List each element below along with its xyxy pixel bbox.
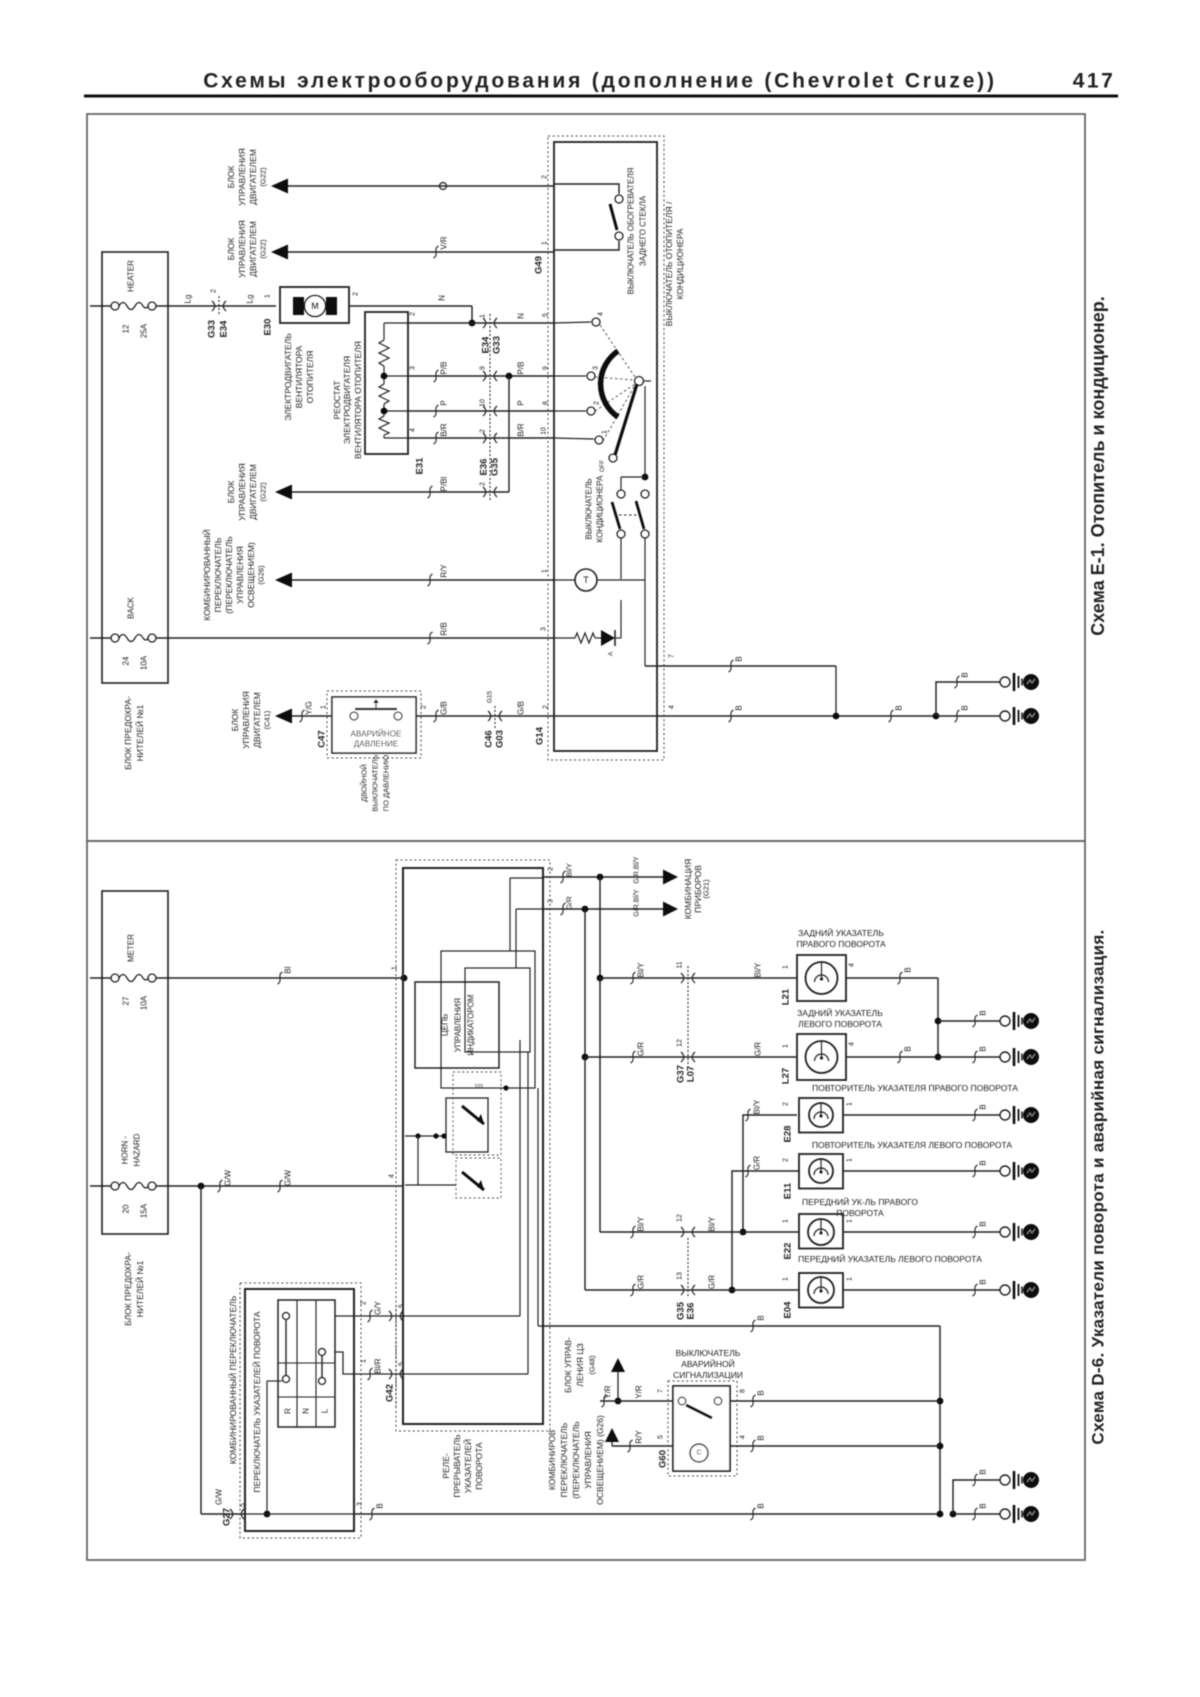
lamp L27 <box>797 1034 846 1080</box>
svg-text:10: 10 <box>480 399 487 407</box>
row4 right wire to ground <box>843 1170 1000 1172</box>
row3 right wire to ground <box>843 1114 1000 1116</box>
svg-text:ДВИГАТЕЛЕМ: ДВИГАТЕЛЕМ <box>248 149 258 205</box>
svg-text:L07: L07 <box>686 1066 697 1082</box>
svg-text:25A: 25A <box>140 323 149 338</box>
relay internal junction row <box>405 1135 446 1137</box>
wire combo switch pin2 to relay G/Y <box>335 1315 354 1317</box>
lamp E04 front left <box>799 1273 843 1308</box>
svg-text:15A: 15A <box>140 1203 149 1218</box>
combination turn switch dashed outline <box>240 1283 361 1538</box>
svg-text:Y/G: Y/G <box>305 701 314 715</box>
svg-text:5: 5 <box>658 1435 665 1439</box>
ground stub row1-2 lower <box>938 1056 1000 1058</box>
svg-text:G/B: G/B <box>517 701 526 715</box>
svg-text:2: 2 <box>542 175 549 179</box>
svg-text:8: 8 <box>740 1389 747 1393</box>
ground stub row1-2 upper <box>938 1020 1000 1022</box>
svg-text:КОНДИЦИОНЕРА: КОНДИЦИОНЕРА <box>675 228 685 299</box>
svg-text:ДВОЙНОЙ: ДВОЙНОЙ <box>360 764 369 802</box>
svg-text:B: B <box>757 1390 766 1395</box>
svg-text:10A: 10A <box>140 995 149 1010</box>
svg-text:B: B <box>735 705 744 710</box>
svg-text:B: B <box>757 1503 766 1508</box>
wire G49 exit pin7 <box>644 579 646 666</box>
svg-text:Схемы электрооборудования (доп: Схемы электрооборудования (дополнение (C… <box>203 70 997 93</box>
svg-text:B: B <box>904 967 913 972</box>
wire ECU2 to G49 pin1 <box>288 251 554 253</box>
svg-text:5: 5 <box>399 1362 406 1366</box>
svg-text:УПРАВЛЕНИЯ: УПРАВЛЕНИЯ <box>235 546 245 604</box>
svg-text:1: 1 <box>542 569 549 573</box>
svg-text:12: 12 <box>677 1039 684 1047</box>
svg-text:G14: G14 <box>535 726 546 745</box>
svg-text:4: 4 <box>598 312 605 316</box>
arrow from блок управления ЦЗ <box>611 1358 625 1372</box>
svg-text:3: 3 <box>357 1502 364 1506</box>
wire ECU3 P/Bl <box>292 491 509 493</box>
svg-text:2: 2 <box>211 289 218 293</box>
svg-text:P: P <box>517 400 526 405</box>
svg-text:1: 1 <box>847 1219 854 1223</box>
svg-text:11: 11 <box>677 961 684 968</box>
wire hazard pin4 to trunk <box>730 1445 940 1447</box>
row2 wire rear left turn lamp <box>582 1054 589 1061</box>
wire ECU1 to G49 pin2 <box>288 185 554 187</box>
svg-text:Lg: Lg <box>246 295 255 304</box>
fuse box БЛОК ПРЕДОХРАНИТЕЛЕЙ №1 (bottom) <box>102 891 168 1234</box>
svg-text:1: 1 <box>392 966 399 970</box>
svg-text:G35: G35 <box>490 457 501 476</box>
svg-text:2: 2 <box>594 401 601 405</box>
connector G37/L07 column <box>687 966 689 1066</box>
wire relay B exit to right trunk <box>543 1325 940 1327</box>
svg-text:T: T <box>583 575 589 585</box>
svg-text:БЛОК: БЛОК <box>226 166 236 189</box>
svg-text:ВЕНТИЛЯТОРА ОТОПИТЕЛЯ: ВЕНТИЛЯТОРА ОТОПИТЕЛЯ <box>353 341 363 459</box>
svg-text:4: 4 <box>410 428 417 432</box>
svg-text:РЕЛЕ-: РЕЛЕ- <box>441 1453 451 1479</box>
svg-text:10A: 10A <box>140 655 149 670</box>
wire E30 to junction <box>349 305 472 307</box>
ground wire lower <box>936 715 1000 717</box>
svg-text:ВЫКЛЮЧАТЕЛЬ ОБОГРЕВАТЕЛЯ: ВЫКЛЮЧАТЕЛЬ ОБОГРЕВАТЕЛЯ <box>627 167 636 294</box>
svg-text:Y/R: Y/R <box>635 1385 644 1399</box>
ground symbol bottom 1 <box>1000 1475 1010 1485</box>
svg-text:E04: E04 <box>783 1301 794 1319</box>
svg-text:УПРАВЛЕНИЯ: УПРАВЛЕНИЯ <box>237 220 247 278</box>
svg-text:9: 9 <box>480 366 487 370</box>
svg-text:R/Y: R/Y <box>440 564 449 578</box>
blower motor E30 <box>280 287 349 323</box>
thermostat <box>554 579 575 581</box>
svg-text:OFF: OFF <box>600 460 606 472</box>
connector G35/E36 column <box>687 1238 689 1298</box>
svg-text:G03: G03 <box>495 730 506 748</box>
svg-text:B: B <box>979 1469 988 1474</box>
svg-text:27: 27 <box>122 996 131 1005</box>
hazard switch G60 dashed outline <box>668 1381 737 1476</box>
svg-text:ДВИГАТЕЛЕМ: ДВИГАТЕЛЕМ <box>248 464 258 520</box>
svg-text:(G22): (G22) <box>259 482 268 502</box>
row5 wire front right turn lamp <box>599 977 601 979</box>
svg-text:B: B <box>961 672 970 677</box>
arrow to ECU P/Bl wire <box>275 485 292 500</box>
wire relay pin3 to cluster arrow <box>543 908 663 910</box>
wire E31 pin3 to G49 pin9 <box>408 375 554 377</box>
bottom right ground branch <box>950 1511 957 1518</box>
svg-text:АВАРИЙНОЙ: АВАРИЙНОЙ <box>681 1358 734 1369</box>
svg-text:G/R: G/R <box>637 1275 646 1289</box>
svg-text:P/B: P/B <box>517 362 526 375</box>
svg-text:ПОВТОРИТЕЛЬ УКАЗАТЕЛЯ ПРАВОГО: ПОВТОРИТЕЛЬ УКАЗАТЕЛЯ ПРАВОГО ПОВОРОТА <box>812 1083 1018 1093</box>
svg-text:ЭЛЕКТРОДВИГАТЕЛЯ: ЭЛЕКТРОДВИГАТЕЛЯ <box>342 356 352 444</box>
svg-text:2: 2 <box>421 705 428 709</box>
svg-text:2: 2 <box>480 482 487 486</box>
svg-text:3: 3 <box>593 366 600 370</box>
svg-text:1: 1 <box>783 1044 790 1048</box>
trunk Bl/Y down <box>599 877 601 978</box>
svg-text:ВЫКЛЮЧАТЕЛЬ: ВЫКЛЮЧАТЕЛЬ <box>676 1348 741 1358</box>
svg-text:1: 1 <box>783 1277 790 1281</box>
svg-text:Bl/R: Bl/R <box>374 1358 383 1373</box>
wire fuse HEATER to E30 <box>156 305 276 307</box>
svg-text:2: 2 <box>783 1102 790 1106</box>
lamp E11 side repeater left <box>799 1154 843 1189</box>
svg-text:E34: E34 <box>219 320 230 338</box>
svg-text:G/R: G/R <box>637 1042 646 1056</box>
blower switch arc <box>601 351 618 417</box>
svg-text:N: N <box>517 313 526 319</box>
svg-text:ОСВЕЩЕНИЕМ): ОСВЕЩЕНИЕМ) <box>246 542 256 608</box>
svg-text:G/R: G/R <box>753 1156 762 1170</box>
svg-text:Bl/Y: Bl/Y <box>754 962 763 977</box>
wire fuse BACK to G49 pin3 <box>156 637 554 639</box>
svg-text:ПРАВОГО ПОВОРОТА: ПРАВОГО ПОВОРОТА <box>796 939 886 949</box>
wire to hazard switch pin7 <box>600 1400 673 1402</box>
svg-text:(ПЕРЕКЛЮЧАТЕЛЬ: (ПЕРЕКЛЮЧАТЕЛЬ <box>571 1421 581 1499</box>
svg-text:L21: L21 <box>781 988 792 1005</box>
svg-text:Bl: Bl <box>284 966 293 973</box>
svg-text:METER: METER <box>127 934 136 962</box>
svg-text:B/R: B/R <box>517 423 526 437</box>
turn switch contacts L <box>319 1349 326 1356</box>
svg-text:4: 4 <box>740 1435 747 1439</box>
svg-text:E22: E22 <box>783 1243 794 1260</box>
svg-text:ДВИГАТЕЛЕМ: ДВИГАТЕЛЕМ <box>248 221 258 277</box>
wire C41 to pressure switch <box>292 715 332 717</box>
ground symbol bottom 2 <box>1000 1509 1010 1519</box>
svg-text:P: P <box>440 400 449 405</box>
row6 right wire to ground <box>843 1289 1000 1291</box>
svg-text:G/R: G/R <box>708 1275 717 1289</box>
svg-text:B: B <box>904 1046 913 1051</box>
svg-text:БЛОК: БЛОК <box>226 481 236 504</box>
svg-text:ЗАДНЕГО СТЕКЛА: ЗАДНЕГО СТЕКЛА <box>639 195 648 266</box>
svg-text:G/W: G/W <box>215 1489 224 1505</box>
svg-text:2: 2 <box>480 429 487 433</box>
svg-text:E34: E34 <box>481 336 492 354</box>
svg-text:4: 4 <box>849 1042 856 1046</box>
svg-text:HORN -: HORN - <box>121 1135 130 1164</box>
svg-text:BACK: BACK <box>127 596 136 618</box>
svg-text:HAZARD: HAZARD <box>133 1133 142 1166</box>
svg-text:E36: E36 <box>479 459 490 476</box>
svg-text:G/Y: G/Y <box>374 1300 383 1314</box>
arrow to instrument cluster 1 <box>663 870 678 885</box>
wire G49 exit pin4 to grounds <box>554 715 936 717</box>
svg-text:HEATER: HEATER <box>127 260 136 292</box>
svg-text:ОСВЕЩЕНИЕМ) (G26): ОСВЕЩЕНИЕМ) (G26) <box>595 1415 605 1505</box>
wire METER fuse to relay pin1 <box>156 977 403 979</box>
right trunk vertical <box>939 1326 941 1514</box>
svg-text:G42: G42 <box>385 1384 396 1402</box>
svg-text:2: 2 <box>353 292 360 296</box>
svg-text:Bl/Y: Bl/Y <box>637 962 646 977</box>
top diagram outer frame <box>87 114 1085 841</box>
svg-text:G/W: G/W <box>284 1170 293 1186</box>
svg-text:ПРЕРЫВАТЕЛЬ: ПРЕРЫВАТЕЛЬ <box>452 1434 462 1497</box>
wire HORN fuse to relay pin4 <box>156 1185 403 1187</box>
svg-text:4: 4 <box>849 963 856 967</box>
svg-text:R/Y: R/Y <box>635 1430 644 1444</box>
header underline <box>84 95 1118 98</box>
svg-text:1: 1 <box>480 314 487 318</box>
svg-text:20: 20 <box>122 1204 131 1213</box>
wire E31 pin2 to G49 pin5 <box>408 322 554 324</box>
svg-text:G60: G60 <box>658 1450 669 1468</box>
wire fuse down to combination switch G27 <box>200 1186 202 1514</box>
svg-text:B: B <box>961 705 970 710</box>
wire E31 pin4 to G49 pin10 <box>408 437 554 439</box>
svg-text:УПРАВЛЕНИЯ: УПРАВЛЕНИЯ <box>237 463 247 521</box>
turn switch contact table <box>278 1300 335 1427</box>
svg-text:3: 3 <box>410 366 417 370</box>
svg-text:ОТОПИТЕЛЯ: ОТОПИТЕЛЯ <box>305 351 315 404</box>
lamp L21 <box>797 955 846 1001</box>
svg-text:5: 5 <box>399 1304 406 1308</box>
svg-text:1: 1 <box>783 965 790 969</box>
wire combo switch pin1 to relay Bl/R <box>335 1352 405 1374</box>
svg-text:3: 3 <box>541 627 548 631</box>
svg-text:ВЕНТИЛЯТОРА: ВЕНТИЛЯТОРА <box>294 345 304 408</box>
combo switch internal bottom link <box>267 1380 282 1382</box>
svg-text:R: R <box>284 1408 293 1414</box>
svg-text:E30: E30 <box>263 319 274 336</box>
svg-text:НИТЕЛЕЙ №1: НИТЕЛЕЙ №1 <box>134 1260 145 1317</box>
connector G42 column <box>395 1305 397 1406</box>
resistor block E31 РЕОСТАТ <box>365 312 408 454</box>
turn switch contacts R <box>283 1313 290 1320</box>
svg-text:B: B <box>979 1221 988 1226</box>
relay internal switch unit 1 <box>446 1098 488 1152</box>
svg-text:B: B <box>979 1279 988 1284</box>
svg-text:(ПЕРЕКЛЮЧАТЕЛЬ: (ПЕРЕКЛЮЧАТЕЛЬ <box>224 536 234 614</box>
svg-text:7: 7 <box>669 654 676 658</box>
arrow to instrument cluster 2 <box>663 902 678 917</box>
svg-text:ПЕРЕКЛЮЧАТЕЛЬ: ПЕРЕКЛЮЧАТЕЛЬ <box>559 1422 569 1497</box>
ground symbol row4 <box>1000 1166 1010 1176</box>
svg-text:ПЕРЕКЛЮЧАТЕЛЬ: ПЕРЕКЛЮЧАТЕЛЬ <box>213 537 223 612</box>
svg-text:НИТЕЛЕЙ №1: НИТЕЛЕЙ №1 <box>134 704 145 761</box>
svg-text:Bl/Y: Bl/Y <box>565 863 574 877</box>
svg-text:1: 1 <box>847 1277 854 1281</box>
svg-text:L: L <box>321 1408 330 1413</box>
svg-text:2: 2 <box>410 312 417 316</box>
svg-text:(C41): (C41) <box>263 710 272 729</box>
svg-text:ИНДИКАТОРОМ: ИНДИКАТОРОМ <box>467 994 476 1055</box>
arrow to ECU G22 (1) <box>271 179 288 194</box>
svg-text:B: B <box>757 1435 766 1440</box>
svg-text:КОМБИНИРОВ: КОМБИНИРОВ <box>547 1430 557 1491</box>
svg-text:ВЫКЛЮЧАТЕЛЬ: ВЫКЛЮЧАТЕЛЬ <box>371 754 380 811</box>
fuse box БЛОК ПРЕДОХРАНИТЕЛЕЙ №1 (top) <box>102 252 168 683</box>
row6 wire front left turn lamp <box>584 1057 586 1290</box>
svg-text:4: 4 <box>389 1174 396 1178</box>
svg-text:1: 1 <box>602 430 609 434</box>
connector column E34/G33 mid <box>489 314 491 500</box>
svg-text:ПЕРЕДНИЙ УК-ЛЬ ПРАВОГО: ПЕРЕДНИЙ УК-ЛЬ ПРАВОГО <box>802 1196 918 1207</box>
svg-text:24: 24 <box>122 656 131 665</box>
svg-text:1: 1 <box>265 294 272 298</box>
ground symbol top-right 1 <box>1000 677 1010 687</box>
svg-text:G/R.Bl/Y: G/R.Bl/Y <box>634 856 641 884</box>
relay internal indicator control box <box>415 982 499 1068</box>
svg-text:ЗАДНИЙ УКАЗАТЕЛЬ: ЗАДНИЙ УКАЗАТЕЛЬ <box>798 927 884 938</box>
row3 feed from row5 <box>743 1115 797 1232</box>
svg-text:БЛОК УПРАВ-: БЛОК УПРАВ- <box>563 1337 573 1393</box>
fuse 27 10A METER <box>90 977 111 979</box>
svg-text:G33: G33 <box>207 320 218 338</box>
svg-text:C47: C47 <box>317 730 328 747</box>
svg-text:G33: G33 <box>492 336 503 354</box>
row5 right wire to ground <box>843 1231 1000 1233</box>
svg-text:БЛОК: БЛОК <box>226 238 236 261</box>
relay internal verticals to lower pins <box>519 1040 521 1316</box>
svg-text:G/B: G/B <box>440 701 449 715</box>
turn signal relay dashed outline <box>396 860 550 1431</box>
svg-text:УПРАВЛЕНИЯ: УПРАВЛЕНИЯ <box>583 1431 593 1489</box>
svg-text:(G48): (G48) <box>588 1355 597 1375</box>
fuse 12 25A HEATER <box>90 305 111 307</box>
row1 right wire <box>846 977 938 979</box>
svg-text:E36: E36 <box>686 1303 697 1320</box>
arrow to combination switch G26 <box>275 573 292 588</box>
svg-text:ПОВТОРИТЕЛЬ УКАЗАТЕЛЯ ЛЕВОГО П: ПОВТОРИТЕЛЬ УКАЗАТЕЛЯ ЛЕВОГО ПОВОРОТА <box>812 1140 1012 1150</box>
heater-A/C switch block G49 dashed outline <box>548 136 664 760</box>
svg-text:1: 1 <box>321 705 328 709</box>
arrow to ECU G22 (2) <box>271 245 288 260</box>
ground wire upper <box>936 682 1000 716</box>
svg-text:1: 1 <box>542 241 549 245</box>
blower switch selector dashes <box>600 325 635 377</box>
svg-text:Lg: Lg <box>184 295 193 304</box>
lamp ground trunk rows 1-2 <box>937 978 939 1057</box>
svg-text:G49: G49 <box>534 256 545 274</box>
lamp E28 side repeater right <box>799 1098 843 1133</box>
svg-text:417: 417 <box>1073 70 1116 93</box>
svg-text:ПО ДАВЛЕНИЮ: ПО ДАВЛЕНИЮ <box>382 754 391 811</box>
A/C switch <box>644 386 646 477</box>
ground symbol rows12 upper <box>1000 1016 1010 1026</box>
svg-text:101: 101 <box>474 1084 483 1090</box>
svg-text:N: N <box>302 1408 311 1414</box>
bottom diagram outer frame <box>87 841 1085 1560</box>
svg-text:ЦЕПЬ: ЦЕПЬ <box>441 1014 450 1036</box>
svg-text:ДВИГАТЕЛЕМ: ДВИГАТЕЛЕМ <box>252 692 262 748</box>
lamp E22 front right <box>799 1214 843 1249</box>
svg-text:УПРАВЛЕНИЯ: УПРАВЛЕНИЯ <box>454 998 463 1052</box>
relay internal switch unit 2 <box>456 1158 501 1198</box>
svg-text:B: B <box>895 705 904 710</box>
resistor and diode inside G49 <box>554 637 575 639</box>
svg-text:G15: G15 <box>487 690 494 703</box>
svg-text:ЭЛЕКТРОДВИГАТЕЛЬ: ЭЛЕКТРОДВИГАТЕЛЬ <box>283 333 293 421</box>
svg-text:B: B <box>979 1010 988 1015</box>
svg-text:2: 2 <box>783 1158 790 1162</box>
svg-text:ДАВЛЕНИЕ: ДАВЛЕНИЕ <box>354 740 399 749</box>
svg-text:12: 12 <box>677 1214 684 1222</box>
svg-text:C: C <box>696 1450 701 1457</box>
fuse 24 10A BACK <box>90 637 111 639</box>
svg-text:2: 2 <box>548 867 555 871</box>
ground symbol row3 <box>1000 1110 1010 1120</box>
wire hazard pin8 to trunk <box>730 1400 940 1402</box>
svg-text:БЛОК ПРЕДОХРА-: БЛОК ПРЕДОХРА- <box>123 696 133 770</box>
svg-text:1: 1 <box>361 1359 368 1363</box>
svg-text:(G26): (G26) <box>257 565 266 585</box>
turn signal relay box <box>403 868 543 1424</box>
svg-text:(G22): (G22) <box>259 239 268 259</box>
wire pressure switch to G49 pin2 G14 <box>416 715 554 717</box>
svg-text:УКАЗАТЕЛЕЙ: УКАЗАТЕЛЕЙ <box>462 1439 473 1493</box>
hazard switch G60 box <box>673 1386 730 1471</box>
svg-text:Y/R: Y/R <box>604 1385 613 1399</box>
svg-text:КОМБИНИРОВАННЫЙ ПЕРЕКЛЮЧАТЕЛЬ: КОМБИНИРОВАННЫЙ ПЕРЕКЛЮЧАТЕЛЬ <box>227 1295 238 1464</box>
bottom right ground wire 2 <box>953 1513 1000 1515</box>
svg-text:(G21): (G21) <box>702 879 711 899</box>
svg-text:ЗАДНИЙ УКАЗАТЕЛЬ: ЗАДНИЙ УКАЗАТЕЛЬ <box>797 1007 883 1018</box>
svg-text:1: 1 <box>847 1158 854 1162</box>
arrow to ECU C41 <box>275 709 292 724</box>
svg-text:E28: E28 <box>783 1126 794 1143</box>
svg-text:ЛЕВОГО ПОВОРОТА: ЛЕВОГО ПОВОРОТА <box>798 1019 882 1029</box>
ground symbol row6 <box>1000 1285 1010 1295</box>
svg-text:2: 2 <box>361 1301 368 1305</box>
svg-text:УПРАВЛЕНИЯ: УПРАВЛЕНИЯ <box>237 148 247 206</box>
svg-text:G/R.Bl/Y: G/R.Bl/Y <box>634 889 641 917</box>
svg-text:B: B <box>979 1503 988 1508</box>
trunk G/R down <box>584 909 586 1057</box>
connector C46/G03 <box>488 711 502 721</box>
svg-text:P/Bl: P/Bl <box>440 476 449 491</box>
svg-text:B: B <box>376 1503 385 1508</box>
svg-text:1: 1 <box>847 1102 854 1106</box>
svg-text:B: B <box>735 656 744 661</box>
svg-text:B: B <box>757 1315 766 1320</box>
svg-text:7: 7 <box>658 1389 665 1393</box>
svg-text:B: B <box>979 1104 988 1109</box>
svg-text:3: 3 <box>548 899 555 903</box>
svg-text:V/R: V/R <box>440 236 449 250</box>
wire G26 to G49 thermostat pin1 <box>292 579 554 581</box>
row2 right wire <box>846 1056 938 1058</box>
svg-text:ВЫКЛЮЧАТЕЛЬ ОТОПИТЕЛЯ /: ВЫКЛЮЧАТЕЛЬ ОТОПИТЕЛЯ / <box>664 201 674 326</box>
svg-text:Bl/Y: Bl/Y <box>637 1216 646 1231</box>
ground symbol top-right 2 <box>1000 711 1010 721</box>
svg-text:E11: E11 <box>783 1182 794 1199</box>
svg-text:12: 12 <box>122 324 131 333</box>
